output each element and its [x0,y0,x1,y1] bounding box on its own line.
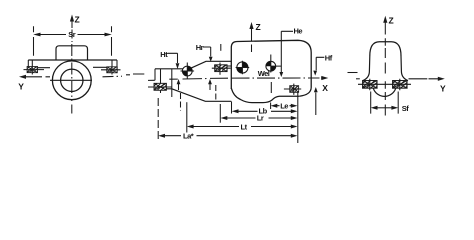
svg-text:La*: La* [183,131,194,140]
svg-text:Lr: Lr [257,114,264,123]
svg-text:Z: Z [389,16,394,26]
svg-text:Sf: Sf [402,104,410,113]
svg-text:Hr: Hr [196,43,204,52]
svg-text:Y: Y [440,83,446,93]
svg-text:Wel: Wel [258,69,270,78]
svg-text:X: X [322,83,328,93]
svg-text:Z: Z [75,15,80,25]
svg-text:Le: Le [280,102,288,111]
svg-text:He: He [294,27,303,36]
svg-text:Lt: Lt [241,123,248,132]
svg-text:Z: Z [256,22,261,32]
svg-text:Hf: Hf [325,53,333,62]
svg-text:Y: Y [18,82,24,92]
svg-text:Ht: Ht [160,50,168,59]
svg-text:Sr: Sr [68,30,76,39]
